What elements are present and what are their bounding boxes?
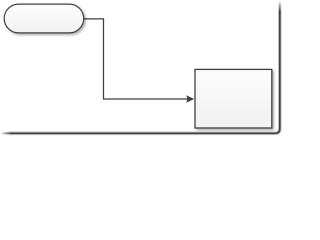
process rectangle: [195, 69, 272, 128]
terminator shape (rounded pill): [4, 4, 84, 33]
wire connector elbow: [84, 19, 189, 99]
arrowhead: [186, 95, 194, 103]
frame shadow right+bottom: [1, 1, 280, 133]
